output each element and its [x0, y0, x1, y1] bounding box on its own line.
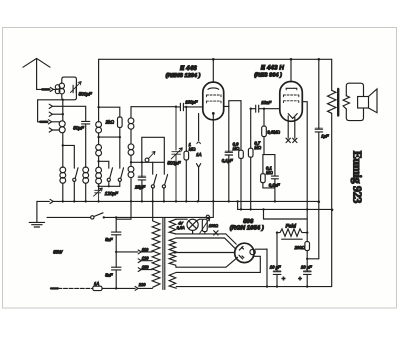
switch S2	[107, 168, 112, 187]
plus mark 2	[298, 277, 302, 283]
plug contact c1	[49, 104, 52, 108]
svg-text:100pF: 100pF	[185, 100, 198, 105]
box switch contact	[145, 152, 155, 162]
tank 1 box	[62, 77, 77, 100]
resistor 1MOhm grid leak	[184, 107, 189, 201]
HV bottom feed	[176, 257, 238, 267]
svg-text:160Ω: 160Ω	[209, 224, 218, 228]
coil L10 (131 lower)	[116, 166, 134, 219]
tube U2 grid lower	[283, 101, 298, 103]
svg-text:MΩ: MΩ	[189, 146, 196, 151]
feld box top	[264, 218, 308, 220]
svg-text:500pF: 500pF	[79, 92, 93, 97]
svg-text:+: +	[298, 277, 302, 283]
svg-text:1A: 1A	[94, 281, 99, 286]
antenna series capacitor 2 (block)	[40, 121, 47, 124]
label 120pF	[105, 191, 119, 196]
rectifier output vertical	[266, 249, 268, 287]
svg-text:280Ω: 280Ω	[294, 245, 306, 250]
mains switch S6	[91, 213, 105, 219]
svg-text:5nF: 5nF	[105, 237, 113, 242]
capacitor 0,1uF 2	[271, 155, 278, 188]
label E446	[180, 65, 197, 72]
capacitor 50pF	[82, 121, 90, 167]
speaker cone	[369, 89, 378, 113]
label 5nF 2	[105, 272, 113, 277]
svg-text:0,5A: 0,5A	[177, 226, 185, 230]
label 10uF 2	[301, 264, 312, 269]
filament mark x2	[293, 138, 297, 142]
speaker loop	[346, 83, 363, 120]
svg-text:110: 110	[142, 247, 149, 252]
capacitor 10uF 2	[304, 259, 312, 287]
label Feld	[286, 224, 297, 230]
tube U1 anode bar	[208, 88, 219, 89]
svg-text:120pF: 120pF	[105, 191, 119, 196]
tap 120	[138, 256, 152, 263]
tube U1 E446 envelope	[203, 82, 224, 120]
mains lead	[51, 287, 93, 289]
power transformer primary	[152, 221, 160, 287]
resistor 0,1MOhm	[261, 155, 266, 188]
svg-text:Feld: Feld	[286, 224, 297, 230]
tube U1 cathode	[212, 112, 215, 120]
svg-text:25µF: 25µF	[134, 185, 145, 190]
tube U2 anode bar	[286, 88, 297, 90]
wire c1 to 50pF line	[52, 106, 85, 120]
svg-text:(RENS 1284 ): (RENS 1284 )	[166, 72, 201, 79]
heater winding W1	[169, 219, 176, 234]
power transformer primary feed	[152, 201, 154, 221]
tap 220	[135, 282, 152, 291]
switch line	[47, 216, 91, 218]
speaker driver	[358, 97, 369, 109]
tube U2 E443H envelope	[280, 82, 303, 122]
label 1A	[196, 152, 201, 157]
wire 2k line to switch S3	[119, 136, 121, 168]
main rail	[53, 200, 319, 202]
wire antenna to series cap	[37, 88, 43, 90]
svg-text:10nF: 10nF	[261, 100, 271, 105]
coil L6 (98.6 mid)	[96, 145, 102, 168]
capacitor 5nF 1	[112, 232, 121, 235]
tube U2 filament	[288, 114, 297, 119]
output transformer primary down	[331, 113, 333, 210]
label 25uF	[134, 185, 145, 190]
coil L9 (131 mid)	[128, 144, 134, 166]
power transformer core	[163, 218, 165, 289]
svg-text:MΩ: MΩ	[254, 145, 261, 150]
wire to 2k resistor top	[99, 107, 120, 117]
plug contact c3	[48, 120, 51, 124]
filament leads	[288, 116, 295, 138]
wire RF line top corner	[98, 59, 100, 122]
label 506	[243, 218, 254, 225]
plug contact rail	[50, 199, 53, 203]
node c2	[62, 113, 64, 115]
svg-text:0,1µF: 0,1µF	[222, 158, 233, 163]
label Eumig 923	[351, 151, 365, 204]
rheostat	[200, 218, 210, 233]
fuse clip top	[197, 142, 201, 144]
switch S1	[73, 168, 78, 202]
screen lead	[224, 101, 241, 107]
node 1uF top	[318, 58, 321, 61]
wire lamp to rheostat	[197, 219, 203, 221]
svg-text:(RGN 1054 ): (RGN 1054 )	[230, 225, 264, 232]
ground	[29, 201, 44, 227]
dial lamp	[187, 219, 198, 230]
label 0,9MOhm	[233, 142, 240, 151]
wire tank1 bottom to lower feed	[38, 100, 62, 122]
mains RC line	[115, 217, 117, 288]
capacitor 10uF 1	[273, 233, 281, 287]
label 10uF 1	[270, 264, 281, 269]
label 500pF 2	[167, 161, 181, 166]
rectifier tube V3	[235, 243, 254, 262]
svg-text:0,1µF: 0,1µF	[269, 183, 280, 188]
HV mid feed	[174, 251, 235, 253]
output transformer primary	[328, 90, 336, 113]
capacitor 25uF	[138, 162, 146, 201]
tube U2 top lead	[290, 58, 293, 82]
resistor 0,7MOhm	[248, 108, 253, 210]
HV winding W2	[169, 238, 176, 267]
tie wire to switch S2	[97, 160, 108, 168]
svg-text:+: +	[282, 277, 286, 283]
node switch line caps	[115, 216, 117, 218]
svg-text:1A: 1A	[196, 152, 201, 157]
B+ stub	[263, 209, 265, 219]
wire 110 tap left	[115, 251, 138, 253]
label 100pF	[185, 100, 198, 105]
variable capacitor 500pF plates	[73, 85, 76, 92]
node 25uF	[141, 161, 143, 163]
plus mark 1	[282, 277, 286, 283]
rectifier output lower	[253, 256, 260, 272]
W3 top feed	[176, 271, 260, 273]
field coil core line	[282, 238, 303, 240]
trimmer 120pF	[94, 188, 103, 201]
svg-text:MΩ: MΩ	[266, 170, 273, 175]
plug contact (antenna upper)	[50, 87, 53, 91]
resistor 9,6MOhm grid leak 2	[262, 108, 267, 155]
tube U1 grid 1	[206, 95, 221, 97]
line 209	[238, 201, 333, 209]
wire IF line stub	[130, 107, 132, 118]
label 10nF	[261, 100, 271, 105]
switch line right	[104, 216, 214, 218]
label RENS1284	[166, 72, 201, 79]
rectifier anode ring	[250, 249, 255, 254]
tie wire switches bottom	[99, 185, 120, 187]
coil L5 (98.6 upper)	[96, 122, 102, 145]
svg-text:(RES 964 ): (RES 964 )	[254, 71, 282, 78]
coil L8 (131 upper)	[128, 118, 134, 144]
label 5nF 1	[105, 237, 113, 242]
coil L3 (62.8)	[60, 167, 66, 201]
main rail ground wire	[37, 200, 50, 202]
tank 1 coil	[59, 83, 64, 94]
fuse 1A clip bottom	[197, 164, 201, 202]
wire c2	[52, 113, 62, 115]
output transformer core	[337, 89, 339, 116]
filament mark x1	[286, 138, 290, 142]
plug contact c2	[49, 112, 52, 116]
wire 2k bottom tie	[99, 136, 120, 138]
tie wire to switch S1	[63, 145, 75, 168]
wire c4 to coil bottom	[52, 129, 59, 131]
capacitor 100pF	[176, 103, 203, 110]
tie AGC bottom	[263, 188, 275, 202]
fuse line from tube	[198, 114, 200, 141]
wire c3 to coil	[52, 121, 60, 123]
output transformer primary feed	[331, 59, 333, 90]
heater mark x	[214, 231, 218, 235]
svg-text:500pF: 500pF	[167, 161, 181, 166]
tap 150	[138, 265, 152, 272]
label 4V 0,5A	[177, 222, 185, 230]
label 1uF	[321, 134, 329, 139]
output transformer secondary	[343, 96, 349, 109]
plug contact c4	[49, 128, 52, 132]
heater line L1	[176, 218, 187, 220]
rheostat contact	[206, 215, 209, 218]
node 176	[175, 106, 177, 108]
antenna series capacitor (block)	[42, 88, 49, 91]
heater line L2	[175, 233, 226, 235]
label 0,1uF screen	[222, 158, 233, 163]
capacitor 5nF 2	[112, 267, 121, 270]
svg-text:2kΩ: 2kΩ	[105, 119, 115, 124]
HV top feed	[176, 238, 236, 249]
label 500pF	[79, 92, 93, 97]
node RF 107	[97, 106, 99, 108]
node mains cap	[115, 287, 117, 289]
tube U1 top lead	[212, 58, 215, 82]
svg-text:10 µF: 10 µF	[301, 264, 312, 269]
rectifier output upper	[255, 248, 267, 250]
node 131 tie	[130, 161, 132, 202]
node 2k tie	[97, 136, 99, 138]
svg-text:55W: 55W	[53, 250, 63, 255]
bottom rail dots	[266, 285, 309, 287]
svg-text:5nF: 5nF	[105, 272, 113, 277]
svg-text:150: 150	[142, 265, 149, 270]
lamp bottom stub	[192, 230, 194, 234]
svg-text:MΩ: MΩ	[233, 146, 240, 151]
label 1MOhm	[189, 142, 197, 151]
capacitor 1uF	[315, 59, 323, 258]
label 0,7MOhm	[254, 141, 261, 150]
svg-text:Eumig 923: Eumig 923	[351, 151, 365, 204]
tank 2 coil L2	[59, 121, 65, 133]
resistor 2kOhm	[118, 117, 123, 137]
nodes on 209	[240, 208, 334, 211]
wire 280 bottom to 1uF	[306, 258, 319, 260]
label 50pF	[73, 125, 85, 130]
box tie wire 162	[131, 161, 164, 163]
label 55W	[53, 250, 63, 255]
node tank1 bottom	[62, 99, 64, 101]
node tie145	[62, 144, 64, 146]
shield box	[142, 137, 165, 162]
label 2kOhm	[105, 119, 115, 124]
resistor 0,9MOhm	[239, 101, 244, 210]
anode lead U2	[302, 102, 307, 233]
svg-text:50pF: 50pF	[73, 125, 85, 130]
bottom rail	[176, 210, 331, 287]
antenna	[23, 58, 50, 89]
rail junction dots	[62, 200, 276, 202]
svg-text:4V: 4V	[178, 222, 183, 226]
svg-text:E 443 H: E 443 H	[261, 64, 284, 71]
tap 110	[138, 247, 152, 254]
L2 diagonal to rectifier	[226, 234, 236, 244]
label RGN1054	[230, 225, 264, 232]
switch S5	[162, 162, 167, 201]
rectifier filament marks	[239, 246, 244, 259]
top rail	[99, 58, 332, 60]
grid wire left segment	[131, 106, 176, 108]
label E443H	[261, 64, 284, 71]
node feld left	[276, 231, 309, 233]
svg-text:9,6MΩ: 9,6MΩ	[267, 130, 280, 135]
resistor 280 Ohm	[305, 233, 310, 259]
heater winding W3	[169, 273, 176, 289]
label 0,1uF 2	[269, 183, 280, 188]
cathode line down	[212, 120, 214, 218]
mains fuse 1A	[93, 281, 135, 291]
coil L4 (85.7)	[83, 167, 89, 201]
label 280 Ohm	[294, 245, 306, 250]
svg-text:1µF: 1µF	[321, 134, 329, 139]
switch S4	[151, 162, 156, 201]
svg-text:506: 506	[243, 218, 254, 225]
switch S3	[118, 168, 123, 187]
rheostat bottom stub	[204, 232, 206, 234]
wire tank2 vertical	[62, 100, 64, 168]
capacitor 0,1uF screen	[225, 106, 233, 201]
variable capacitor arrow	[70, 82, 81, 93]
field coil zigzag	[277, 229, 307, 236]
label 0,1MOhm	[266, 166, 273, 175]
trimmer 500pF 2	[171, 107, 182, 201]
capacitor 10nF	[251, 105, 280, 112]
node 1M top	[185, 106, 187, 108]
coil L7 (98.6 lower)	[96, 167, 102, 190]
node rail 1uF	[318, 201, 321, 204]
tie AGC top	[263, 154, 275, 156]
node trim tie	[97, 185, 110, 187]
tube U2 grid	[283, 95, 298, 97]
label 96MOhm	[267, 130, 280, 135]
tube U1 grid 2	[206, 101, 221, 103]
label 160 Ohm	[209, 224, 218, 228]
svg-text:120: 120	[142, 256, 149, 261]
svg-text:220: 220	[138, 282, 146, 287]
svg-text:E 446: E 446	[180, 65, 197, 72]
label RES964	[254, 71, 282, 78]
svg-text:10 µF: 10 µF	[270, 264, 281, 269]
coupling coil L1	[53, 85, 59, 94]
